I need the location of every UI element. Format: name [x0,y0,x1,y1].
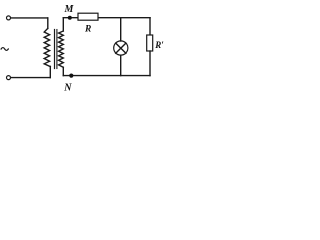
svg-text:N: N [63,83,72,94]
svg-text:R′: R′ [154,40,164,50]
svg-text:M: M [64,4,75,15]
svg-text:R: R [84,25,91,35]
